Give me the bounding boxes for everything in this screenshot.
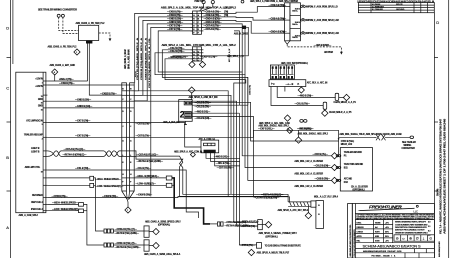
svg-text:W/PDM_F_AUX_PDM_SPLR_LO3: W/PDM_F_AUX_PDM_SPLR_LO3 [306, 32, 340, 35]
ring terminal trailer [410, 136, 414, 139]
module internal labels [24, 78, 44, 211]
bundle wire v4 [234, 80, 258, 223]
thick bus wire to chassis sensors [172, 178, 210, 224]
svg-text:—LOW– WHEELSPEED(T)—: —LOW– WHEELSPEED(T)— [52, 209, 81, 211]
svg-text:—CKT-A B (YE)—: —CKT-A B (YE)— [240, 225, 258, 228]
wire to trailer converter [339, 136, 376, 138]
svg-text:—CKL2 B (TN)—: —CKL2 B (TN)— [168, 48, 185, 50]
relay bank box [270, 65, 294, 79]
svg-text:GND: GND [38, 99, 43, 101]
svg-text:—CKB B (TN)—: —CKB B (TN)— [315, 179, 331, 181]
svg-text:W/PDM_F_AUX_PDM_SPLR_LO: W/PDM_F_AUX_PDM_SPLR_LO [306, 6, 338, 9]
corner wires GND stub [234, 24, 242, 72]
svg-text:—4WD B (YE)—: —4WD B (YE)— [214, 156, 230, 159]
separator above title [355, 242, 434, 244]
svg-text:F06 08024 – 06A346 1: F06 08024 – 06A346 1 A [372, 255, 396, 258]
svg-text:—CKB B (TN)—: —CKB B (TN)— [167, 12, 183, 14]
svg-text:W/PDM_F_AUX_PDM_SPLR_LO2: W/PDM_F_AUX_PDM_SPLR_LO2 [306, 19, 340, 22]
inclinometer body [316, 201, 324, 229]
svg-text:ABS_MDL_SADLE_ABS_SPL2: ABS_MDL_SADLE_ABS_SPL2 [298, 133, 329, 136]
wire C1 right row4 [201, 23, 234, 25]
bundle wire v5 from column row [134, 85, 228, 196]
svg-text:LIGHT B: LIGHT B [31, 148, 40, 150]
svg-text:(OPTIONAL): (OPTIONAL) [353, 189, 365, 192]
svg-text:ABS_MDL_SADLE_TRLR_ABS_SPL2/CO: ABS_MDL_SADLE_TRLR_ABS_SPL2/CON_C/CON_AB… [339, 133, 401, 136]
sensor connector RL [144, 240, 149, 251]
splice diamond signal [265, 221, 271, 227]
svg-text:ABS LMP CTRL: ABS LMP CTRL [25, 166, 41, 169]
wire C2 row1 left [162, 50, 243, 78]
wire module GND A row [47, 80, 87, 82]
svg-text:CHAN_MDLR_A_A_P5: CHAN_MDLR_A_A_P5 [329, 111, 352, 114]
modulator component P5 [323, 102, 327, 109]
svg-text:—GND B (GN)—: —GND B (GN)— [75, 99, 92, 101]
svg-text:—LOW– B (RD) (T)—: —LOW– B (RD) (T)— [136, 184, 157, 186]
svg-text:_SPL2: _SPL2 [223, 7, 231, 9]
svg-text:—RETN-A B (GN) (C)—: —RETN-A B (GN) (C)— [261, 194, 284, 197]
bundle wire v3 to cluster pin3 [243, 77, 332, 180]
svg-text:ABS_A_CAB_SPL2: ABS_A_CAB_SPL2 [19, 214, 39, 217]
svg-text:—GND-A B (GN)—: —GND-A B (GN)— [204, 18, 223, 21]
svg-text:WIRING: WIRING [404, 145, 412, 147]
wire column out LOW row [134, 184, 166, 186]
cluster pin bubble 1 [336, 155, 341, 157]
subtitle separator [355, 252, 434, 254]
relay2 wire row4 [192, 116, 253, 196]
svg-text:—CKT B (TN)—: —CKT B (TN)— [136, 136, 152, 138]
svg-text:—RETN-A B (GRN) (C)—: —RETN-A B (GRN) (C)— [63, 154, 88, 157]
svg-text:(TN): (TN) [224, 12, 228, 14]
svg-text:‹GND› A (TN)—: ‹GND› A (TN)— [59, 78, 74, 81]
splice diamond under CKF [295, 137, 301, 143]
svg-text:TO CAB GND & TRANS SUBSTITUTE: TO CAB GND & TRANS SUBSTITUTE [265, 245, 302, 248]
wire sensor FL to connector [113, 230, 144, 232]
svg-text:—CKW B (TN)—: —CKW B (TN)— [52, 196, 69, 198]
svg-text:LIGHT B: LIGHT B [31, 152, 40, 154]
wire ABS B GND dashed [287, 44, 341, 52]
svg-text:—CKL2 B (GN)—: —CKL2 B (GN)— [195, 118, 213, 120]
wire PDM leg 1 [87, 44, 89, 82]
border tick C/B [7, 121, 11, 123]
svg-text:SCHEM-ABS,WABCO E/EATON S: SCHEM-ABS,WABCO E/EATON S [363, 245, 422, 249]
wire CKF drop to cluster [338, 130, 340, 156]
parts rows lines [355, 220, 392, 243]
ATC valve pin cells [204, 143, 216, 146]
svg-text:LLC: LLC [414, 210, 419, 213]
wire module TRAILER ABS LMP row [47, 136, 121, 138]
sensor connector FL [144, 226, 149, 237]
column taper [122, 191, 134, 202]
svg-text:MDLR_LO2: MDLR_LO2 [341, 144, 353, 146]
svg-text:TRAILER ABS LMP: TRAILER ABS LMP [24, 134, 43, 137]
svg-text:CH_A_CLUSTER: CH_A_CLUSTER [351, 186, 368, 189]
wire module to bracket rows [47, 177, 89, 179]
title block left narrow column [354, 204, 356, 258]
connector C1 body [193, 11, 202, 34]
relay 2 bottom stub [184, 121, 187, 124]
twisted crossing trailer [375, 134, 387, 140]
cluster pin bubble 2 [336, 166, 341, 168]
svg-text:DESCRIPTION. ITEMS MARKED NPR: DESCRIPTION. ITEMS MARKED NPR [395, 226, 427, 229]
speed sensor bracket right of module [90, 176, 94, 180]
wire G2 stem [201, 4, 212, 11]
svg-text:ABS_CHAS_A_SENS_SPEED_SPLY: ABS_CHAS_A_SENS_SPEED_SPLY [145, 221, 181, 224]
bulkhead column left [122, 83, 127, 191]
svg-text:—RETN-A B (YE)—: —RETN-A B (YE)— [240, 221, 259, 224]
svg-text:—CKL2 B (TN)—: —CKL2 B (TN)— [195, 103, 212, 105]
svg-text:—RETN-A B (YEL) (GRN)—: —RETN-A B (YEL) (GRN)— [137, 160, 164, 163]
svg-text:/SEP CHA-1: /SEP CHA-1 [31, 201, 43, 204]
splice diamond trlr [248, 249, 254, 255]
wire CKB row3 [134, 20, 192, 95]
svg-text:CHAN_MDLR_A_A_P1: CHAN_MDLR_A_A_P1 [334, 101, 357, 104]
svg-text:ATC_RLY_A_ATC_IN: ATC_RLY_A_ATC_IN [307, 82, 328, 85]
wire column out ABS LMP row [134, 170, 198, 218]
svg-text:—CKL2 B (GN)—: —CKL2 B (GN)— [314, 166, 332, 168]
svg-text:—CKF B (YE)—: —CKF B (YE)— [313, 154, 329, 156]
wire module CKW row [47, 196, 288, 197]
bundle wire v8 [239, 113, 256, 245]
svg-text:ABS_MAIN_A_BHM: ABS_MAIN_A_BHM [124, 49, 127, 69]
splice diamond RL [153, 242, 159, 248]
ATC valve box [201, 140, 219, 153]
svg-text:TRACTOR ABS IND: TRACTOR ABS IND [344, 163, 364, 166]
wire bracket down to sensor row1 [94, 178, 104, 231]
wire dashed from E2 [63, 17, 79, 33]
svg-text:—CKT-A B (TN)—: —CKT-A B (TN)— [204, 28, 222, 31]
relay bank contacts [272, 66, 293, 69]
wire C1 right row2 to PDM [201, 17, 284, 20]
svg-text:—CKB-4 B (TN)—: —CKB-4 B (TN)— [200, 56, 218, 59]
fuse symbol F1 [301, 5, 306, 7]
PDM power box [79, 25, 99, 40]
option symbol cells [394, 235, 434, 241]
svg-text:—CKB2 B (TN)—: —CKB2 B (TN)— [100, 93, 117, 95]
svg-text:ATC IND: ATC IND [344, 178, 353, 181]
svg-text:+12V IN: +12V IN [35, 86, 43, 88]
option symbols [396, 237, 433, 241]
svg-text:ABS_A_RLY_INC: ABS_A_RLY_INC [163, 121, 180, 124]
connector C2 pin rows [191, 50, 204, 59]
svg-text:⊙: ⊙ [429, 237, 432, 241]
cluster internal labels [344, 151, 368, 192]
svg-text:(TN): (TN) [224, 15, 228, 17]
svg-text:—CKL B (TN)—: —CKL B (TN)— [75, 168, 91, 170]
PDM strain relief [285, 41, 290, 44]
svg-text:B: B [6, 155, 9, 160]
svg-text:ORDER BY DRAWING NUMBER ONLY.: ORDER BY DRAWING NUMBER ONLY. [395, 231, 428, 234]
svg-text:RETAINED: RETAINED [32, 194, 43, 197]
svg-text:CKB B (TN): CKB B (TN) [249, 85, 251, 95]
svg-text:ABS_MDL_LV2_A_CLUSTER: ABS_MDL_LV2_A_CLUSTER [294, 185, 323, 188]
svg-text:—CKTN-A B (GN) (GRN)—: —CKTN-A B (GN) (GRN)— [254, 197, 280, 200]
svg-text:SEE TRAILER WIRING CONVERTER: SEE TRAILER WIRING CONVERTER [38, 9, 77, 12]
wire CKL B TN to modulator 2 [271, 87, 324, 106]
bundle wire v7 from column row [134, 101, 258, 226]
svg-text:—CKT-A B (YEL) (C)—: —CKT-A B (YEL) (C)— [137, 153, 159, 156]
svg-text:—CKL2 B (TN)—: —CKL2 B (TN)— [195, 107, 212, 109]
svg-text:SEE TRAILER: SEE TRAILER [402, 141, 416, 144]
svg-text:FIG. 7.4 – ABS/ATC, WABCO HY: FIG. 7.4 – ABS/ATC, WABCO HYDRAULIC E/EA… [440, 118, 443, 234]
svg-text:ABS-WAB,4CHAN: ABS-WAB,4CHAN [438, 241, 441, 257]
wire C2 row2 left [155, 53, 240, 75]
wire CKB-4 right of C2 [201, 27, 248, 56]
svg-text:—CKB B (TN)—: —CKB B (TN)— [59, 83, 75, 85]
svg-text:—CKW-4 B (YEL) (T)—: —CKW-4 B (YEL) (T)— [115, 242, 138, 245]
ring terminal G3 [241, 0, 244, 3]
svg-text:ABS_CHAS_A_PD_TEM_PL2: ABS_CHAS_A_PD_TEM_PL2 [76, 22, 106, 25]
wire C1 right row1 to PDM [201, 7, 284, 14]
wire module HIGH row [47, 203, 78, 205]
svg-text:CONVERTER: CONVERTER [402, 148, 416, 150]
fuse symbol F2 [301, 19, 306, 21]
splice diamond under socket [298, 87, 304, 93]
revision table top right [358, 3, 434, 13]
svg-text:ABS_SPLR_A_ASR_RLY_INC: ABS_SPLR_A_ASR_RLY_INC [189, 96, 219, 99]
wire module row2 to column [47, 84, 121, 86]
svg-text:—CKB B (TN)—: —CKB B (TN)— [167, 15, 183, 17]
connector ovals CD [300, 120, 307, 123]
border tick B/A [7, 190, 11, 192]
Freightliner logo [358, 204, 419, 213]
svg-text:—CKT-A B (TN)—: —CKT-A B (TN)— [204, 25, 222, 28]
svg-text:—CKF B (YEL)—: —CKF B (YEL)— [297, 129, 314, 131]
svg-text:J: J [193, 58, 194, 60]
wire bracket2 down to sensor row2 [84, 204, 105, 245]
svg-text:30A B+: 30A B+ [295, 8, 302, 11]
wire module CKT row [47, 122, 121, 124]
splice diamond P1 [343, 94, 349, 100]
svg-text:J REVISED PER ECN E123456 04 S: J REVISED PER ECN E123456 04 SCHEM-ABS,W… [357, 0, 434, 3]
svg-text:/PED CHA-4: /PED CHA-4 [31, 208, 43, 211]
svg-text:—CKT B (TN)—: —CKT B (TN)— [75, 136, 91, 138]
svg-text:⍹: ⍹ [402, 237, 404, 241]
twisted pair down to inclinometer [180, 167, 289, 197]
svg-text:(OPTIONAL): (OPTIONAL) [158, 224, 170, 227]
ring terminal E1 [57, 14, 60, 17]
wire C1 right row3 to PDM [201, 20, 284, 33]
svg-text:BHM_A_ABS_MAIN: BHM_A_ABS_MAIN [127, 49, 130, 69]
cab ground connector [257, 243, 262, 249]
svg-text:—4WD B (YE)—: —4WD B (YE)— [168, 56, 184, 59]
splice diamond S1 [74, 49, 80, 55]
connector C1 pin rows [191, 13, 204, 31]
ABS module body [16, 72, 46, 213]
wire module LOW row [47, 210, 78, 212]
bundle wire v2 to cluster pin2 [240, 75, 332, 168]
svg-text:30A B+: 30A B+ [295, 21, 302, 24]
dark connector GND [242, 26, 246, 29]
svg-text:—CKT B (TN)—: —CKT B (TN)— [167, 29, 183, 31]
wire CKB row6 [158, 31, 237, 72]
ATC valve dark block [204, 150, 216, 153]
modulator component P1 [335, 93, 339, 100]
splice diamond ATC [190, 152, 195, 157]
legal separator [355, 213, 434, 215]
svg-text:GROUND: GROUND [396, 9, 405, 11]
wire dashed PDM to ground [99, 33, 110, 39]
wire PDM leg 2 [89, 44, 122, 96]
wire CKB row1 [135, 13, 193, 82]
svg-text:—CKW-A B (YEL) (T)—: —CKW-A B (YEL) (T)— [115, 228, 138, 231]
splice diamond pin3 [331, 177, 337, 183]
svg-text:—CKW B (TN)—: —CKW B (TN)— [102, 196, 119, 198]
svg-text:—4WD B (YE)—: —4WD B (YE)— [195, 110, 211, 113]
column pin ticks [122, 85, 134, 185]
splice diamond above relay2 [189, 87, 195, 93]
wire C2 row4 left [165, 59, 246, 80]
ring terminal E2 [61, 14, 64, 17]
parts rows [357, 222, 390, 242]
svg-text:WHEN ORDERING PARTS, SPECIFY: WHEN ORDERING PARTS, SPECIFY [395, 221, 427, 224]
svg-text:—CTR B (TN)—: —CTR B (TN)— [240, 245, 256, 247]
svg-text:—HIGH– B (RD) (BLK)—: —HIGH– B (RD) (BLK)— [136, 176, 160, 178]
svg-text:J: J [198, 58, 199, 60]
svg-text:CKB B (TN) ABS_SPL2_A: CKB B (TN) ABS_SPL2_A [140, 37, 143, 80]
shielded cable to inclinometer [288, 202, 311, 206]
wire C2 row3 left [173, 55, 193, 57]
splice diamond CKF crossed [287, 127, 293, 133]
svg-text:—GND B (GN)—: —GND B (GN)— [167, 19, 184, 21]
PDM connector body [285, 3, 290, 41]
border right inner line [433, 13, 435, 258]
relay 2 box [179, 100, 193, 122]
svg-text:—GND B (GN)—: —GND B (GN)— [167, 22, 184, 24]
wire column out twisted rows [134, 151, 175, 156]
wire G1 stem [200, 4, 204, 11]
wheel sensor RL symbol [104, 243, 113, 247]
svg-text:CKT B (TN) ABS_SPL2_A_LDL: CKT B (TN) ABS_SPL2_A_LDL [148, 36, 151, 88]
svg-text:—o— B: —o— B [286, 84, 294, 86]
wire module ABS LMP CTRL row [47, 169, 121, 171]
svg-text:ABS_SPLR_A_ATC_RLY_SPL2: ABS_SPLR_A_ATC_RLY_SPL2 [278, 209, 309, 212]
svg-text:(OPTIONAL): (OPTIONAL) [266, 235, 278, 238]
wire C2 stems to diamonds [191, 61, 193, 62]
PDM connector TEM [86, 41, 92, 44]
border right outer line [448, 0, 450, 258]
svg-text:—CKL B (TN)—: —CKL B (TN)— [295, 104, 311, 106]
svg-text:ATC_RLY_A_W: ATC_RLY_A_W [228, 49, 231, 62]
svg-text:ABS_SPLR_A_MDLR_TRLR_P17: ABS_SPLR_A_MDLR_TRLR_P17 [257, 252, 290, 255]
svg-text:F06-2-947 SCHEM-ABS,WABCO: F06-2-947 SCHEM-ABS,WABCO [353, 229, 356, 257]
svg-text:CTRF B (YEL): CTRF B (YEL) [341, 141, 355, 143]
title block left ext column [348, 204, 353, 258]
splice diamond pin2 [331, 164, 337, 170]
wire CKB row4 [134, 24, 192, 101]
splice diamond ADL [284, 115, 290, 121]
svg-text:—CKW B (TN)—: —CKW B (TN)— [136, 195, 153, 197]
PDM fuse column [290, 3, 301, 41]
splice diamond S2 [52, 69, 58, 75]
svg-text:AIR PDM: AIR PDM [324, 51, 333, 54]
title separator [355, 248, 434, 250]
svg-text:—GND1 B (GN)—: —GND1 B (GN)— [75, 106, 93, 108]
svg-text:+0%: +0% [385, 240, 389, 242]
bracket module low rows [79, 203, 84, 207]
splice diamond below columns [125, 207, 131, 213]
wheel sensor FL symbol [104, 229, 113, 233]
svg-text:—CKB-A B (TN)—: —CKB-A B (TN)— [204, 11, 222, 14]
svg-text:ABS_MDL_SADLE_ABS_SPL2: ABS_MDL_SADLE_ABS_SPL2 [258, 124, 289, 127]
wire to diamond P1 [339, 96, 345, 98]
cluster pin bubble 3 [336, 179, 341, 181]
svg-text:D: D [436, 20, 439, 25]
wire sensor RL to connector [113, 244, 144, 246]
ground arrow PDM [340, 52, 343, 55]
svg-text:ABS_SPLR_A_ATC_CON_IN: ABS_SPLR_A_ATC_CON_IN [174, 150, 203, 153]
wire column out CKT row to right [134, 123, 201, 148]
svg-text:ABS_CHAS_A_BAT_GND: ABS_CHAS_A_BAT_GND [50, 64, 76, 67]
connector C1 pin letters [193, 14, 199, 35]
wire column out CKT2 row [134, 130, 338, 137]
cluster module box [340, 148, 372, 191]
fuse symbol F3 [301, 32, 306, 34]
svg-text:APPD: APPD [357, 235, 363, 238]
PDM pin ticks [283, 7, 290, 34]
svg-text:D: D [6, 26, 9, 31]
svg-text:—RETN-4 B (YEL) (GRN)—: —RETN-4 B (YEL) (GRN)— [115, 246, 142, 249]
svg-text:ABS_CHAS_A_PD_TEM_PL2: ABS_CHAS_A_PD_TEM_PL2 [48, 46, 78, 49]
wires into cable [288, 194, 289, 202]
svg-text:+12V IN: +12V IN [35, 78, 43, 80]
relay bank pin row dark cells [272, 76, 293, 78]
ABS module pin ticks [43, 81, 47, 211]
border tick D/C [7, 57, 11, 59]
svg-text:—4WD B (TN)—: —4WD B (TN)— [298, 95, 314, 98]
svg-text:—CKL2 B (TN)—: —CKL2 B (TN)— [168, 51, 185, 53]
svg-text:—CKT B (TN)—: —CKT B (TN)— [167, 26, 183, 28]
svg-text:ARE NOT PROCURABLE. DO NOT: ARE NOT PROCURABLE. DO NOT [395, 229, 425, 232]
inclinometer connector pin [311, 201, 316, 207]
svg-text:ABS-WAB,4CHAN,HYD,E/EATON REL: ABS-WAB,4CHAN,HYD,E/EATON REL [349, 223, 352, 256]
svg-text:—LOW– WHEELSPEED(T)—: —LOW– WHEELSPEED(T)— [95, 186, 124, 188]
svg-text:ABS_CHAS_A_SENS_AXLE_SPL/LA: ABS_CHAS_A_SENS_AXLE_SPL/LA [144, 253, 181, 256]
svg-text:CODE NUMBER, PART NUMBER AND: CODE NUMBER, PART NUMBER AND [395, 223, 428, 226]
svg-text:⊘: ⊘ [396, 237, 399, 241]
twisted crossing right [175, 156, 183, 167]
splice diamond below C2 b [199, 61, 205, 67]
svg-text:SPLICE: SPLICE [396, 4, 403, 6]
svg-text:06A346: 06A346 [437, 188, 440, 196]
svg-text:—CKT B (TN)—: —CKT B (TN)— [136, 124, 152, 126]
svg-text:GND B (GN) ABS_SPL2_A: GND B (GN) ABS_SPL2_A [144, 37, 147, 80]
wire C1 right row5 [201, 27, 245, 74]
svg-text:_B (TN): _B (TN) [135, 71, 137, 79]
svg-text:TRAILER ABS IND: TRAILER ABS IND [344, 151, 362, 154]
svg-text:—ABS B (GND)—: —ABS B (GND)— [314, 44, 332, 47]
svg-text:ABS_MDL_LV2_A_CLUSTER: ABS_MDL_LV2_A_CLUSTER [294, 160, 323, 163]
ordering note block [395, 221, 428, 235]
wire 4WD B TN to modulator [277, 87, 336, 98]
svg-text:—RETN B (YEL) (GRN)—: —RETN B (YEL) (GRN)— [115, 233, 140, 235]
svg-text:—CKT-2 B (TN)—: —CKT-2 B (TN)— [217, 167, 235, 169]
svg-text:ABS_A_GND2: ABS_A_GND2 [234, 33, 249, 36]
splice diamond incl [305, 212, 311, 218]
connector C2 pin letters [193, 52, 199, 63]
wire dashed from E1 [59, 17, 79, 30]
wire splice S2 stem [54, 74, 56, 81]
bundle wire v6 from column row [134, 95, 231, 194]
wire to ring [386, 136, 410, 138]
svg-text:30A B+: 30A B+ [295, 34, 302, 37]
border left line [10, 0, 12, 258]
column pin letters [122, 88, 132, 183]
bundle wire v9 [247, 77, 249, 105]
svg-text:ABS_SPLR_A_SIGNAL_POWER_SPLY: ABS_SPLR_A_SIGNAL_POWER_SPLY [259, 232, 298, 235]
ground arrow AIR PDM [109, 39, 112, 42]
bulkhead column right [130, 83, 135, 191]
svg-text:—CKT-A B (YEL) (C)—: —CKT-A B (YEL) (C)— [64, 148, 86, 151]
